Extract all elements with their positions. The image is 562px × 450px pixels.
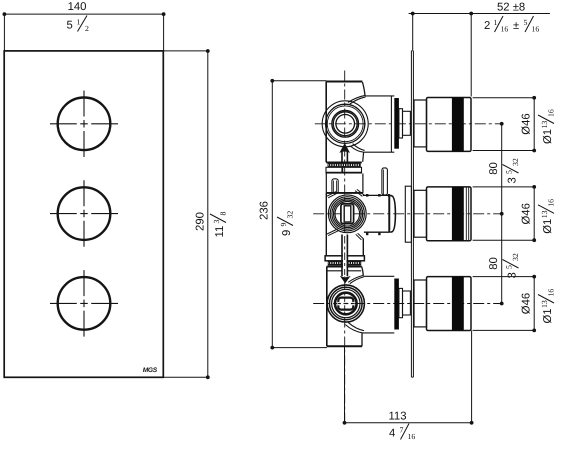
svg-text:9: 9: [281, 230, 293, 236]
knob2 grip band: [452, 187, 464, 241]
bottom valve port socket: [338, 298, 353, 310]
bottom valve flow arrow (down): [343, 235, 347, 277]
svg-text:5: 5: [505, 265, 514, 269]
middle valve cartridge end cap: [389, 196, 395, 232]
svg-text:2: 2: [484, 20, 490, 32]
middle valve thread rings: [328, 195, 366, 233]
middle valve body: [326, 192, 363, 194]
svg-text:±: ±: [513, 20, 519, 32]
svg-text:16: 16: [501, 25, 509, 34]
svg-text:Ø46: Ø46: [521, 113, 533, 134]
bottom valve body: [327, 266, 362, 268]
circle 3 centerlines: [50, 302, 118, 304]
top valve centerline: [315, 123, 502, 125]
middle valve cylinder: [363, 195, 389, 232]
circle 2 centerlines: [50, 213, 118, 215]
svg-text:32: 32: [286, 211, 295, 219]
text 3 5/32 lower rotated: [503, 253, 521, 278]
front panel plate: [4, 51, 163, 377]
svg-text:Ø1: Ø1: [542, 308, 554, 323]
svg-text:16: 16: [532, 25, 540, 34]
top valve o-ring seal: [394, 98, 399, 149]
svg-text:3: 3: [507, 272, 519, 278]
svg-text:9: 9: [279, 223, 288, 227]
top valve housing: [364, 96, 395, 152]
svg-text:1: 1: [77, 18, 81, 27]
panel circle 2: [58, 187, 111, 240]
text 2 1/16 +- 5/16: [484, 18, 539, 34]
text O1 13/16 knob3: [538, 289, 556, 324]
knob1 base ring: [414, 100, 427, 147]
text O1 13/16 knob1: [538, 109, 556, 144]
svg-text:236: 236: [259, 201, 271, 220]
svg-text:32: 32: [511, 253, 520, 261]
svg-text:32: 32: [511, 158, 520, 166]
svg-text:Ø1: Ø1: [542, 129, 554, 144]
bottom valve housing: [363, 276, 394, 333]
top valve body-to-housing curves: [348, 95, 366, 104]
top valve port circles: [322, 101, 368, 147]
top valve body: [326, 81, 362, 83]
main vertical centerline of valve stack: [344, 71, 346, 423]
dim line 290: [163, 51, 208, 377]
svg-text:16: 16: [547, 109, 556, 117]
knurled band: [328, 262, 361, 265]
knob3 grip band: [452, 277, 464, 331]
svg-text:5: 5: [524, 18, 528, 27]
bottom valve port circles: [327, 285, 364, 322]
svg-text:5: 5: [505, 170, 514, 174]
circle 1 centerlines: [50, 123, 118, 125]
svg-text:8: 8: [219, 212, 228, 216]
bottom valve wedge edge: [362, 267, 364, 276]
svg-text:5: 5: [67, 20, 73, 32]
knob2 base ring: [414, 190, 427, 237]
svg-text:16: 16: [547, 199, 556, 207]
dim line 140: [4, 13, 163, 15]
knob2 cylinder: [427, 187, 472, 241]
bottom valve stem adapter: [399, 288, 403, 317]
svg-text:Ø46: Ø46: [521, 293, 533, 314]
bottom valve centerline: [313, 303, 502, 305]
text 11 3/8 rotated: [210, 212, 228, 238]
svg-text:13: 13: [540, 210, 549, 218]
svg-text:13: 13: [540, 121, 549, 129]
top valve wedge edge: [362, 82, 365, 95]
bottom valve o-ring seal: [394, 279, 399, 330]
svg-text:80: 80: [488, 162, 500, 175]
panel circle 1: [58, 98, 111, 151]
panel circle 3: [58, 277, 111, 330]
svg-text:4: 4: [389, 428, 395, 440]
text O1 13/16 knob2: [538, 199, 556, 234]
svg-text:Ø1: Ø1: [542, 219, 554, 234]
text 5 1/2: [67, 18, 90, 34]
pipe collar flange: [325, 256, 364, 261]
svg-text:290: 290: [195, 212, 207, 231]
middle valve cartridge slot: [341, 204, 354, 224]
top valve flow arrow (up): [342, 152, 347, 162]
escutcheon boss: [405, 186, 411, 242]
svg-text:2: 2: [85, 24, 89, 33]
svg-text:Ø46: Ø46: [521, 203, 533, 224]
svg-text:16: 16: [408, 432, 416, 441]
svg-text:11: 11: [214, 226, 226, 238]
text 4 7/16: [389, 426, 415, 442]
svg-text:3: 3: [507, 177, 519, 183]
locknut band: [326, 167, 362, 173]
svg-text:1: 1: [494, 18, 498, 27]
svg-text:7: 7: [400, 426, 404, 435]
knob1 cylinder: [427, 98, 472, 152]
svg-text:113: 113: [388, 411, 406, 423]
middle valve centerline: [313, 213, 502, 215]
middle valve corner chamfers: [327, 192, 337, 198]
text 3 5/32 upper rotated: [503, 158, 521, 183]
svg-text:80: 80: [488, 257, 500, 270]
knurled nut band: [328, 164, 360, 167]
svg-text:MGS: MGS: [143, 367, 158, 374]
knob1 grip band: [452, 98, 464, 152]
pipe segment: [326, 174, 363, 193]
svg-text:52 ±8: 52 ±8: [497, 2, 525, 14]
middle valve right pin: [382, 168, 388, 195]
svg-text:140: 140: [68, 1, 87, 13]
svg-text:13: 13: [540, 300, 549, 308]
middle valve left pin: [332, 179, 338, 193]
knob3 base ring: [414, 280, 427, 327]
text 9 9/32 rotated: [277, 211, 295, 236]
svg-text:3: 3: [212, 220, 221, 224]
knob3 cylinder: [427, 277, 472, 331]
svg-text:16: 16: [547, 289, 556, 297]
bottom valve chamfer curves: [348, 275, 364, 283]
top valve stem adapter: [399, 109, 403, 138]
middle valve top ticks: [366, 194, 368, 197]
